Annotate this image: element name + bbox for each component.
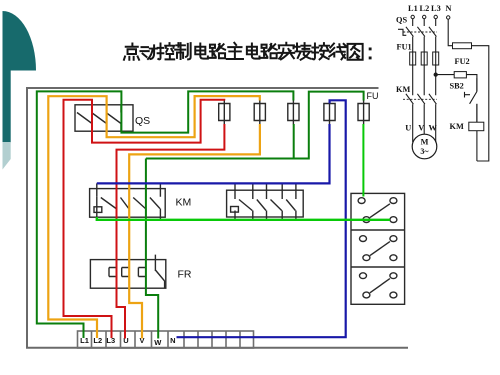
svg-text:KM: KM bbox=[396, 85, 410, 94]
svg-text:3~: 3~ bbox=[420, 147, 429, 156]
svg-text:L2: L2 bbox=[420, 4, 430, 13]
svg-text:QS: QS bbox=[396, 16, 407, 25]
svg-text:FU1: FU1 bbox=[397, 42, 412, 51]
svg-text:KM: KM bbox=[176, 197, 192, 209]
svg-text:L3: L3 bbox=[431, 4, 441, 13]
svg-text:M: M bbox=[421, 138, 429, 147]
svg-text:FU2: FU2 bbox=[455, 57, 470, 66]
svg-text:W: W bbox=[428, 124, 437, 133]
svg-text:L1: L1 bbox=[408, 4, 418, 13]
svg-text:SB2: SB2 bbox=[450, 81, 464, 90]
svg-text:FU: FU bbox=[367, 91, 379, 101]
svg-text:QS: QS bbox=[135, 115, 150, 127]
svg-text:V: V bbox=[418, 124, 424, 133]
svg-text:KM: KM bbox=[450, 122, 464, 131]
svg-text:N: N bbox=[170, 336, 175, 345]
svg-text:N: N bbox=[446, 4, 452, 13]
svg-text:U: U bbox=[405, 124, 411, 133]
svg-text:W: W bbox=[154, 338, 162, 347]
svg-text:FR: FR bbox=[178, 269, 192, 281]
